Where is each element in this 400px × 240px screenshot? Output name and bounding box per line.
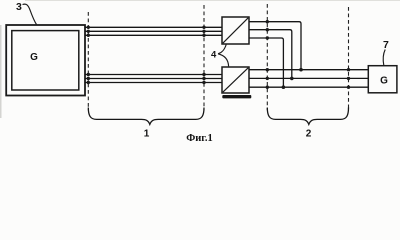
converter U1 box xyxy=(222,17,249,44)
brace section 2 xyxy=(267,108,348,125)
dashed divider line d (x=348) xyxy=(348,7,350,110)
svg-text:1: 1 xyxy=(144,129,150,140)
wire U1 output 2 with bend down xyxy=(249,30,292,79)
generator G (3) inner box xyxy=(12,31,79,90)
dashed divider line a (x=88) xyxy=(87,12,89,110)
wire right phase 3 (U2 to G7) xyxy=(249,86,368,88)
svg-text:Фиг.1: Фиг.1 xyxy=(186,133,213,143)
machine G (7) box xyxy=(368,66,397,93)
dashed divider line b (x=204) xyxy=(203,5,205,110)
generator G (3) outer box xyxy=(6,25,85,96)
svg-text:7: 7 xyxy=(383,39,389,51)
svg-text:3: 3 xyxy=(16,1,22,13)
converter U1 diagonal xyxy=(223,18,248,43)
junction dots at divider b xyxy=(202,26,205,85)
junction dots at divider c xyxy=(266,20,269,89)
wire bottom phase 3 (G3 to converter U2) xyxy=(85,82,222,84)
leader line for label 3 xyxy=(23,4,37,24)
wire top phase 3 (G3 to converter U1) xyxy=(85,34,222,36)
svg-text:4: 4 xyxy=(211,50,217,61)
scan artifact left edge xyxy=(0,25,2,118)
wire top phase 2 (G3 to converter U1) xyxy=(85,30,222,32)
wire right phase 1 (U2 to G7) xyxy=(249,69,368,71)
wire U1 output 3 with bend down xyxy=(249,38,283,87)
scan artifact top edge xyxy=(25,0,400,2)
leader line for label 7 xyxy=(383,50,385,66)
svg-text:2: 2 xyxy=(306,129,312,140)
wire U1 output 1 with bend down xyxy=(249,22,301,70)
leader fork for label 4 lower branch xyxy=(218,54,229,67)
converter U2 box xyxy=(222,67,249,93)
wire top phase 1 (G3 to converter U1) xyxy=(85,26,222,28)
leader fork for label 4 upper branch xyxy=(218,45,226,54)
wire right phase 2 (U2 to G7) xyxy=(249,77,368,79)
wire bottom phase 2 (G3 to converter U2) xyxy=(85,78,222,80)
svg-text:G: G xyxy=(380,75,388,86)
brace section 1 xyxy=(88,108,204,125)
junction dots at divider a xyxy=(87,26,90,85)
wire bottom phase 1 (G3 to converter U2) xyxy=(85,74,222,76)
junction dots U1 outputs onto bus xyxy=(282,68,303,89)
svg-text:G: G xyxy=(30,52,38,63)
junction dots at divider d xyxy=(347,68,350,89)
dashed divider line c (x=267) xyxy=(266,4,268,110)
ink bar under converter U2 xyxy=(222,95,251,98)
converter U2 diagonal xyxy=(223,68,248,92)
